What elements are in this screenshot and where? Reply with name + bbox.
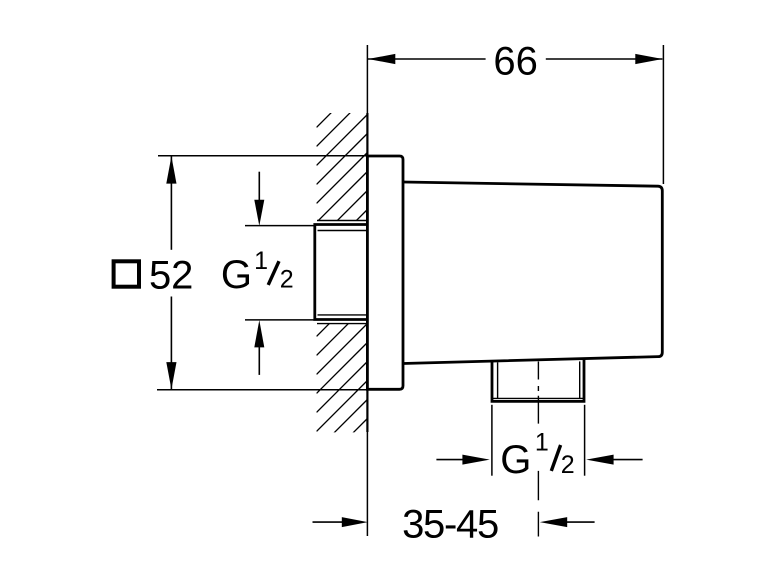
dimension 66 line right segment bbox=[546, 58, 663, 60]
outlet thread root bottom bbox=[493, 397, 583, 399]
outlet thread bbox=[492, 359, 584, 402]
outlet dimension arrow right bbox=[613, 459, 643, 461]
inlet thread dimension extension bottom bbox=[245, 319, 314, 321]
wall hatch bbox=[317, 77, 368, 470]
dimension 35-45 arrow right bbox=[540, 517, 567, 527]
dimension 52 line bottom segment bbox=[170, 297, 172, 390]
svg-text:35-45: 35-45 bbox=[402, 502, 498, 546]
outlet dimension extension right bbox=[584, 405, 586, 476]
outlet dimension extension left bbox=[491, 405, 493, 476]
dimension 66 line left segment bbox=[368, 58, 486, 60]
inlet thread root line bottom bbox=[318, 314, 368, 316]
inlet thread dimension extension top bbox=[245, 225, 314, 227]
dimension 52 line top segment bbox=[170, 157, 172, 250]
outlet dimension arrow left bbox=[436, 459, 463, 461]
svg-text:1: 1 bbox=[254, 247, 268, 275]
square symbol bbox=[114, 261, 139, 286]
dimension 35-45 line right segment bbox=[567, 521, 595, 523]
inlet thread root line top bbox=[318, 230, 368, 232]
svg-text:G: G bbox=[221, 253, 252, 297]
dimension 52 extension line bottom bbox=[157, 389, 367, 391]
body bbox=[403, 182, 662, 364]
dimension 35-45 line left segment bbox=[313, 521, 343, 523]
outlet centerline bbox=[537, 362, 539, 537]
inlet thread nipple outline bbox=[315, 225, 368, 320]
svg-text:G: G bbox=[500, 438, 531, 482]
dimension 52 arrow top bbox=[166, 156, 176, 183]
dimension 52 extension line top bbox=[158, 155, 367, 157]
svg-text:66: 66 bbox=[493, 39, 538, 83]
svg-text:2: 2 bbox=[561, 451, 575, 479]
dimension 66 arrow right bbox=[635, 54, 662, 64]
inlet thread dimension arrow top bbox=[258, 172, 260, 201]
outlet thread root right bbox=[579, 361, 581, 398]
wall hole edge bottom bbox=[317, 323, 367, 325]
svg-text:2: 2 bbox=[280, 265, 294, 293]
dimension 35-45 arrow left bbox=[342, 517, 368, 527]
inlet thread dimension arrow bottom bbox=[258, 347, 260, 375]
wall surface line bbox=[366, 45, 368, 536]
svg-text:1: 1 bbox=[535, 428, 549, 456]
svg-text:52: 52 bbox=[149, 253, 194, 297]
dimension 66 arrow left bbox=[368, 54, 395, 64]
dimension 52 arrow bottom bbox=[166, 362, 176, 389]
dimension 66 extension line right bbox=[662, 45, 664, 184]
outlet thread root left bbox=[497, 362, 499, 398]
wall hole edge top bbox=[317, 220, 367, 222]
escutcheon plate bbox=[367, 156, 403, 389]
